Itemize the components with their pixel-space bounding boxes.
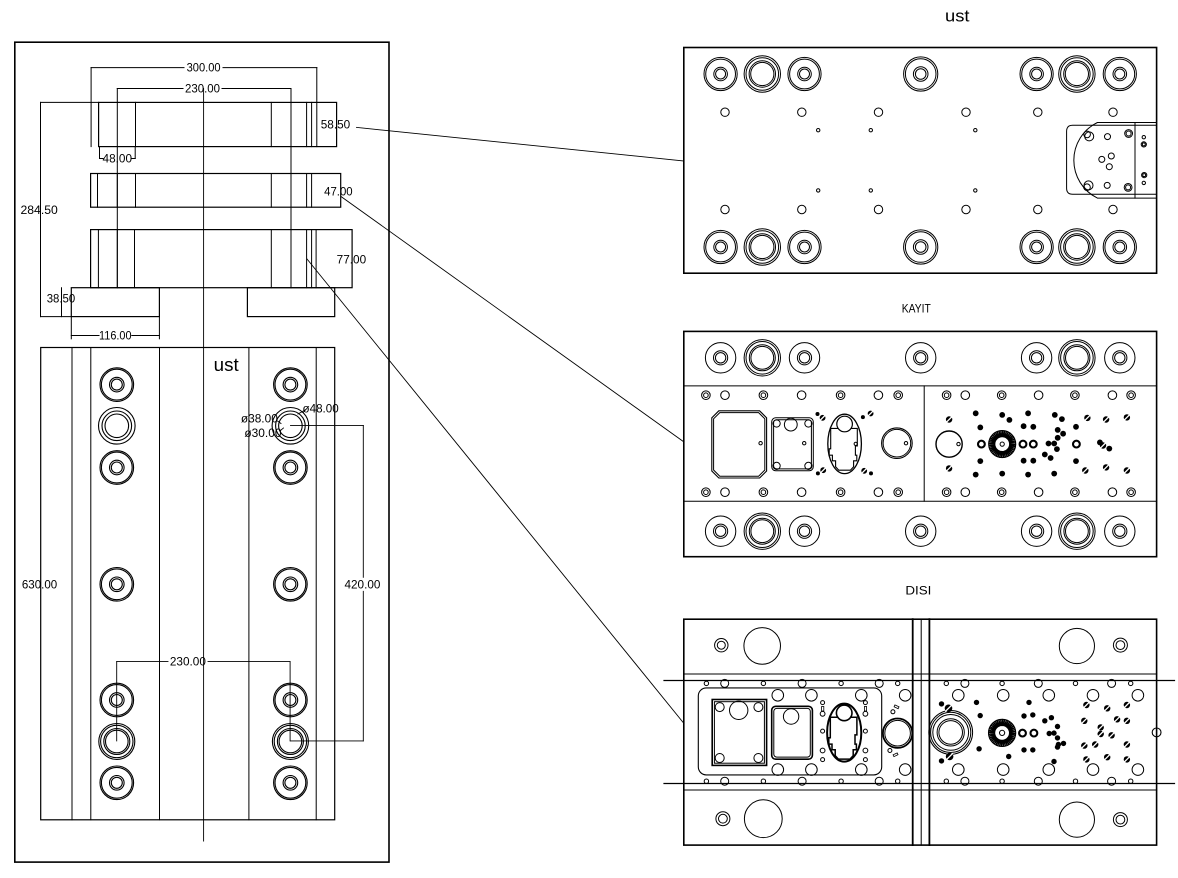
svg-text:284.50: 284.50 bbox=[21, 203, 59, 217]
svg-text:ø30.00: ø30.00 bbox=[244, 426, 282, 440]
svg-text:77.00: 77.00 bbox=[337, 253, 367, 267]
svg-text:116.00: 116.00 bbox=[99, 329, 132, 343]
svg-text:300.00: 300.00 bbox=[187, 61, 221, 75]
svg-text:ø38.00: ø38.00 bbox=[241, 412, 278, 426]
svg-text:ust: ust bbox=[214, 355, 239, 375]
svg-text:630.00: 630.00 bbox=[22, 578, 58, 592]
svg-text:ø48.00: ø48.00 bbox=[303, 401, 340, 415]
svg-text:230.00: 230.00 bbox=[170, 655, 206, 669]
svg-text:47.00: 47.00 bbox=[324, 185, 353, 199]
svg-text:38.50: 38.50 bbox=[47, 291, 76, 305]
svg-text:48.00: 48.00 bbox=[103, 152, 133, 166]
svg-text:58.50: 58.50 bbox=[321, 118, 351, 132]
svg-text:230.00: 230.00 bbox=[185, 82, 220, 96]
svg-text:ust: ust bbox=[945, 6, 970, 25]
svg-text:DISI: DISI bbox=[905, 584, 931, 598]
svg-text:420.00: 420.00 bbox=[345, 577, 381, 591]
svg-text:KAYIT: KAYIT bbox=[902, 302, 932, 316]
